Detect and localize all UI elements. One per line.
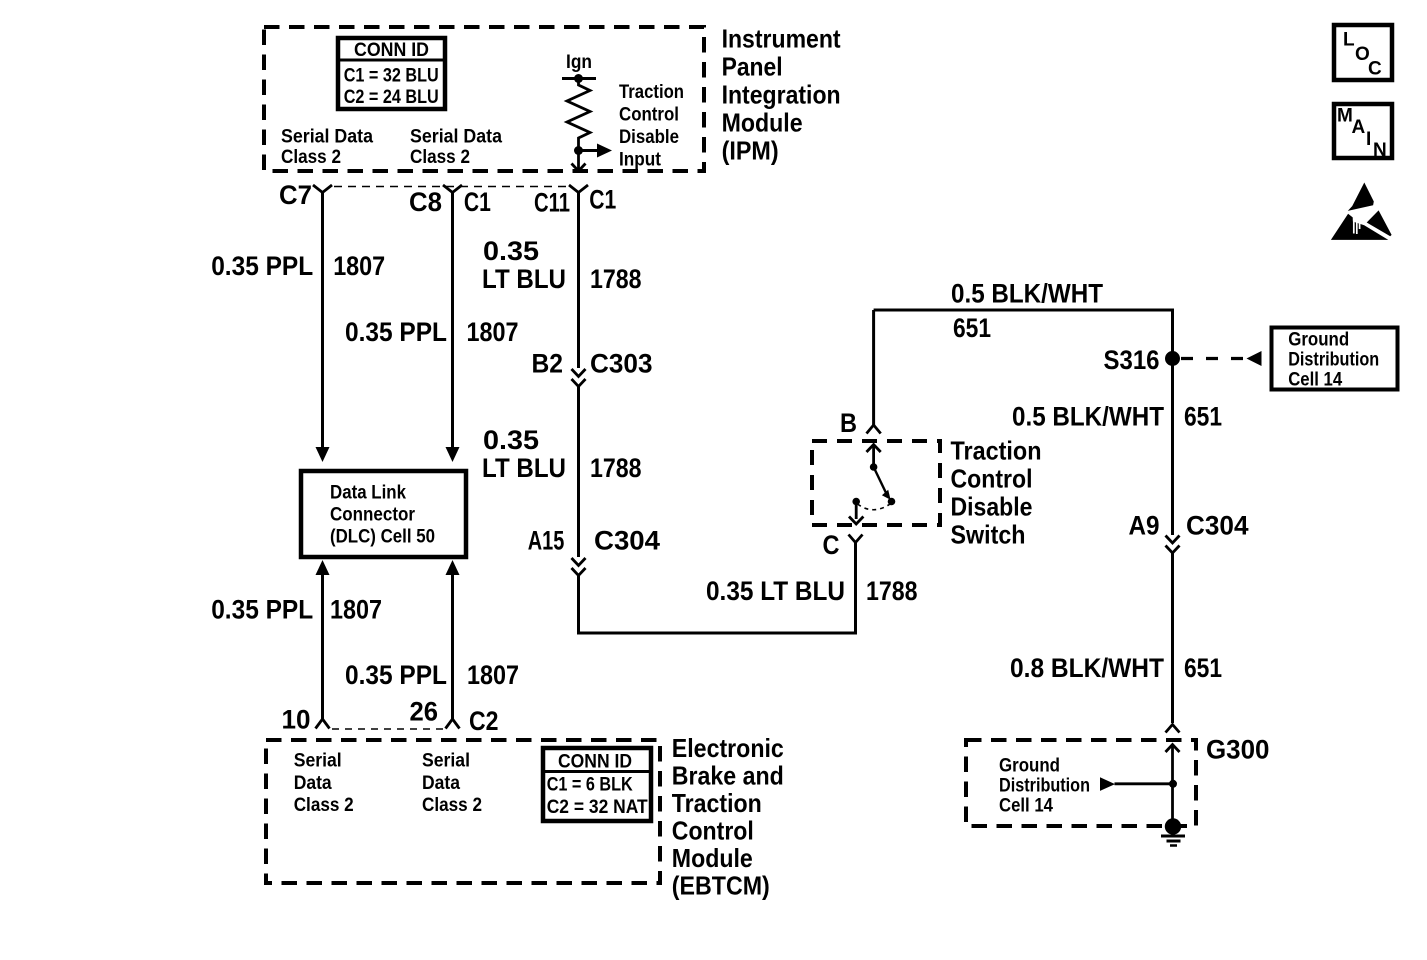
svg-text:Data: Data [422, 773, 460, 794]
svg-text:Distribution: Distribution [999, 776, 1090, 797]
svg-text:A: A [1352, 117, 1366, 138]
svg-text:(IPM): (IPM) [722, 136, 779, 166]
svg-text:Ign: Ign [566, 52, 592, 73]
svg-text:Switch: Switch [951, 519, 1026, 549]
svg-text:L: L [1343, 30, 1355, 51]
svg-text:Panel: Panel [722, 52, 783, 82]
svg-text:1807: 1807 [330, 594, 382, 624]
svg-text:Class 2: Class 2 [281, 147, 341, 168]
svg-text:Class 2: Class 2 [410, 147, 470, 168]
svg-text:I: I [1366, 129, 1371, 150]
svg-text:(DLC) Cell 50: (DLC) Cell 50 [330, 527, 435, 548]
svg-text:Control: Control [619, 104, 679, 125]
svg-text:C1 = 6 BLK: C1 = 6 BLK [547, 775, 633, 796]
svg-text:1788: 1788 [866, 576, 918, 606]
svg-text:Control: Control [672, 816, 754, 846]
svg-text:C2 = 24 BLU: C2 = 24 BLU [344, 87, 439, 108]
svg-text:Traction: Traction [619, 82, 684, 103]
svg-text:Serial: Serial [294, 751, 342, 772]
svg-text:1807: 1807 [467, 660, 519, 690]
svg-text:C2: C2 [469, 706, 499, 736]
svg-text:Ground: Ground [1288, 329, 1349, 350]
svg-text:G300: G300 [1206, 734, 1270, 764]
svg-text:0.35 PPL: 0.35 PPL [345, 317, 447, 347]
svg-text:Traction: Traction [951, 435, 1042, 465]
svg-text:LT BLU: LT BLU [482, 453, 566, 483]
svg-text:10: 10 [282, 704, 311, 734]
svg-text:C304: C304 [594, 526, 660, 556]
svg-text:1807: 1807 [333, 251, 385, 281]
svg-text:Serial Data: Serial Data [281, 127, 373, 148]
svg-text:Instrument: Instrument [722, 24, 841, 54]
svg-text:Distribution: Distribution [1288, 349, 1379, 370]
svg-text:C7: C7 [279, 180, 312, 210]
svg-text:Disable: Disable [619, 127, 679, 148]
svg-text:Class 2: Class 2 [422, 795, 482, 816]
svg-text:A9: A9 [1129, 510, 1160, 540]
svg-text:26: 26 [410, 697, 439, 727]
svg-text:C303: C303 [590, 348, 653, 378]
svg-text:0.35 PPL: 0.35 PPL [345, 660, 447, 690]
svg-text:Cell 14: Cell 14 [999, 796, 1053, 817]
svg-text:Disable: Disable [951, 491, 1033, 521]
svg-text:A15: A15 [528, 526, 565, 556]
svg-text:651: 651 [1184, 401, 1222, 431]
svg-text:CONN ID: CONN ID [354, 40, 429, 61]
svg-text:Class 2: Class 2 [294, 795, 354, 816]
svg-text:0.35: 0.35 [483, 425, 539, 455]
svg-text:C11: C11 [534, 188, 570, 218]
svg-text:0.35 PPL: 0.35 PPL [211, 594, 313, 624]
svg-text:M: M [1337, 106, 1353, 127]
svg-text:651: 651 [953, 313, 991, 343]
svg-text:Data Link: Data Link [330, 483, 406, 504]
svg-text:N: N [1373, 140, 1387, 161]
svg-text:0.35 LT BLU: 0.35 LT BLU [706, 576, 845, 606]
svg-text:651: 651 [1184, 653, 1222, 683]
svg-text:CONN ID: CONN ID [558, 752, 632, 773]
svg-text:0.35 PPL: 0.35 PPL [211, 251, 313, 281]
svg-text:Brake and: Brake and [672, 761, 784, 791]
svg-text:C: C [1368, 59, 1382, 80]
svg-text:B2: B2 [532, 348, 564, 378]
svg-text:C1: C1 [464, 187, 491, 217]
svg-text:Data: Data [294, 773, 332, 794]
svg-text:C304: C304 [1186, 510, 1249, 540]
svg-text:1788: 1788 [590, 453, 642, 483]
svg-text:C: C [823, 530, 840, 560]
svg-text:Serial: Serial [422, 751, 470, 772]
svg-text:Serial Data: Serial Data [410, 127, 502, 148]
svg-text:0.5 BLK/WHT: 0.5 BLK/WHT [951, 279, 1103, 309]
svg-text:1788: 1788 [590, 264, 642, 294]
svg-text:1807: 1807 [467, 317, 519, 347]
svg-text:B: B [840, 408, 857, 438]
svg-text:0.8 BLK/WHT: 0.8 BLK/WHT [1010, 653, 1164, 683]
svg-text:Traction: Traction [672, 788, 762, 818]
svg-text:Integration: Integration [722, 80, 841, 110]
svg-text:C2 = 32 NAT: C2 = 32 NAT [547, 797, 648, 818]
svg-text:Connector: Connector [330, 505, 416, 526]
svg-text:(EBTCM): (EBTCM) [672, 871, 770, 901]
svg-text:S316: S316 [1104, 345, 1160, 375]
svg-text:C1 = 32 BLU: C1 = 32 BLU [344, 65, 439, 86]
svg-text:C1: C1 [589, 185, 616, 215]
svg-text:Electronic: Electronic [672, 733, 784, 763]
svg-text:0.35: 0.35 [483, 236, 539, 266]
svg-text:0.5 BLK/WHT: 0.5 BLK/WHT [1012, 401, 1164, 431]
svg-text:Module: Module [722, 108, 803, 138]
svg-text:Input: Input [619, 149, 662, 170]
svg-text:LT BLU: LT BLU [482, 264, 566, 294]
svg-text:C8: C8 [409, 187, 442, 217]
svg-text:Module: Module [672, 843, 753, 873]
svg-text:Cell 14: Cell 14 [1288, 369, 1342, 390]
svg-text:Control: Control [951, 463, 1033, 493]
svg-text:Ground: Ground [999, 756, 1060, 777]
